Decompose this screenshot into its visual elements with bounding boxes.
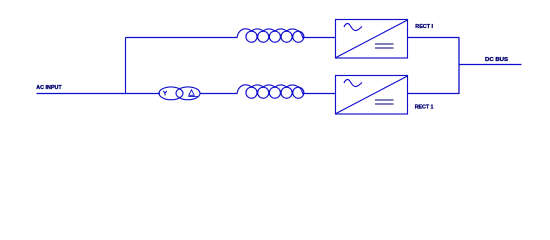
transformer T1 delta winding <box>176 87 200 100</box>
inductor L1 rings <box>246 31 304 42</box>
inductor L1 envelope <box>237 29 303 38</box>
rectifier U1 DC equals symbol <box>375 44 394 48</box>
wire AC input feeder <box>37 93 161 95</box>
svg-text:AC INPUT: AC INPUT <box>36 85 62 91</box>
wire DC bus bar vertical <box>458 38 460 94</box>
wire branch riser at junction <box>125 38 127 95</box>
wire inductor L1 to rectifier U1 <box>302 37 336 39</box>
wire rectifier U1 output <box>408 37 460 39</box>
wire DC bus stub <box>459 64 522 66</box>
rectifier U2 box <box>336 76 408 115</box>
rectifier U2 diagonal <box>336 76 408 114</box>
wire inductor L2 to rectifier U2 <box>302 93 336 95</box>
inductor L2 rings <box>246 87 304 98</box>
transformer T1 wye winding <box>159 87 183 100</box>
wire transformer T1 to inductor L2 <box>200 93 238 95</box>
wire rectifier U2 output <box>408 93 460 95</box>
inductor L2 envelope <box>237 85 303 94</box>
transformer wye symbol Y <box>163 91 167 96</box>
transformer delta symbol <box>188 90 197 97</box>
svg-text:DC BUS: DC BUS <box>485 57 509 63</box>
svg-text:RECT I: RECT I <box>415 24 433 30</box>
rectifier U2 DC equals symbol <box>375 100 394 104</box>
rectifier U1 diagonal <box>336 20 408 58</box>
wire top branch to inductor L1 <box>126 37 238 39</box>
rectifier U2 AC sine <box>344 79 362 86</box>
svg-text:RECT 1: RECT 1 <box>415 105 434 111</box>
rectifier U1 AC sine <box>344 23 362 30</box>
rectifier U1 box <box>336 20 408 59</box>
